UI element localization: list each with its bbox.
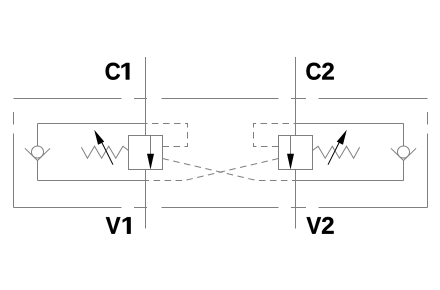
valve body square V1 (left counterbalance) bbox=[129, 136, 163, 170]
wire: right loop top edge bbox=[296, 123, 404, 125]
wire: left loop left edge (check valve branch) bbox=[37, 124, 39, 181]
outer dashed enclosure bottom edge bbox=[14, 207, 428, 209]
check valve CV2 seat bbox=[391, 148, 416, 160]
spring S1 (left, adjustable) bbox=[81, 146, 128, 158]
pilot line (dashed) valve V1 direct pilot loop bbox=[146, 124, 188, 147]
wire: left loop top edge bbox=[38, 123, 146, 125]
adjustment arrow on spring S1 bbox=[100, 138, 114, 165]
port label V1 bbox=[106, 217, 131, 234]
adjustment arrow on spring S2 bbox=[328, 138, 342, 165]
valve V2 internal flow line bbox=[290, 136, 292, 156]
outer dashed enclosure right edge bbox=[427, 112, 429, 208]
wire: left loop bottom edge bbox=[38, 180, 146, 182]
flow arrow inside valve V1 bbox=[147, 154, 154, 170]
outer dashed enclosure left edge bbox=[13, 112, 15, 208]
port label C2 bbox=[306, 63, 333, 80]
check valve CV1 seat bbox=[25, 148, 50, 160]
pilot line (dashed) valve V2 direct pilot loop bbox=[254, 124, 296, 147]
flow arrow inside valve V2 bbox=[287, 154, 294, 170]
spring S2 (right, adjustable) bbox=[313, 146, 360, 158]
valve body square V2 (right counterbalance) bbox=[279, 136, 313, 170]
port label V2 bbox=[307, 217, 334, 234]
adjustment arrowhead S2 bbox=[337, 130, 347, 145]
check valve CV1 circle bbox=[32, 146, 44, 158]
port label C1 bbox=[106, 63, 130, 80]
pilot line (dashed) cross pilot from V2 to line 1 bbox=[146, 159, 279, 181]
adjustment arrowhead S1 bbox=[94, 130, 104, 145]
pilot line (dashed) cross pilot from V1 to line 2 bbox=[163, 159, 296, 181]
outer dashed enclosure top edge bbox=[14, 98, 428, 100]
wire: right loop right edge (check valve branch) bbox=[403, 124, 405, 181]
check valve CV2 circle bbox=[398, 146, 410, 158]
wire: line C2-V2 vertical bbox=[295, 57, 297, 229]
wire: line C1-V1 vertical bbox=[145, 57, 147, 229]
wire: right loop bottom edge bbox=[296, 180, 404, 182]
valve V1 internal flow line bbox=[150, 136, 152, 156]
